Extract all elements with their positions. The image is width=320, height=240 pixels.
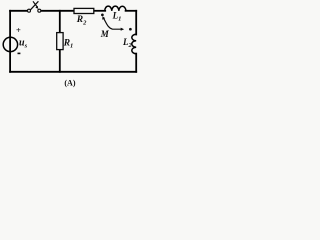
switch contact left (28, 9, 31, 12)
svg-text:+: + (16, 25, 21, 35)
inductor L1 (105, 6, 126, 11)
svg-text:(A): (A) (64, 78, 75, 87)
wire top: switch to R2 (41, 10, 74, 12)
wire top: corner to switch (10, 10, 27, 12)
wire top: L1 to right corner (126, 10, 137, 12)
wire middle branch (59, 11, 61, 72)
dot L2 polarity (129, 28, 132, 31)
resistor R1 (57, 33, 63, 50)
dot L1 polarity (101, 14, 104, 17)
svg-text:M: M (100, 29, 110, 39)
inductor L2 (132, 34, 136, 53)
wire left vertical (9, 11, 11, 72)
switch closing arrow (33, 1, 37, 7)
switch contact right (38, 9, 41, 12)
wire top: R2 to L1 (94, 10, 105, 12)
arrow M coupling (103, 18, 121, 29)
label minus (18, 52, 21, 54)
wire right vertical lower (135, 54, 137, 72)
switch blade (30, 1, 38, 10)
wire right vertical upper (135, 11, 137, 35)
resistor R2 (74, 8, 94, 13)
source us circle (3, 37, 17, 51)
wire bottom (10, 71, 136, 73)
